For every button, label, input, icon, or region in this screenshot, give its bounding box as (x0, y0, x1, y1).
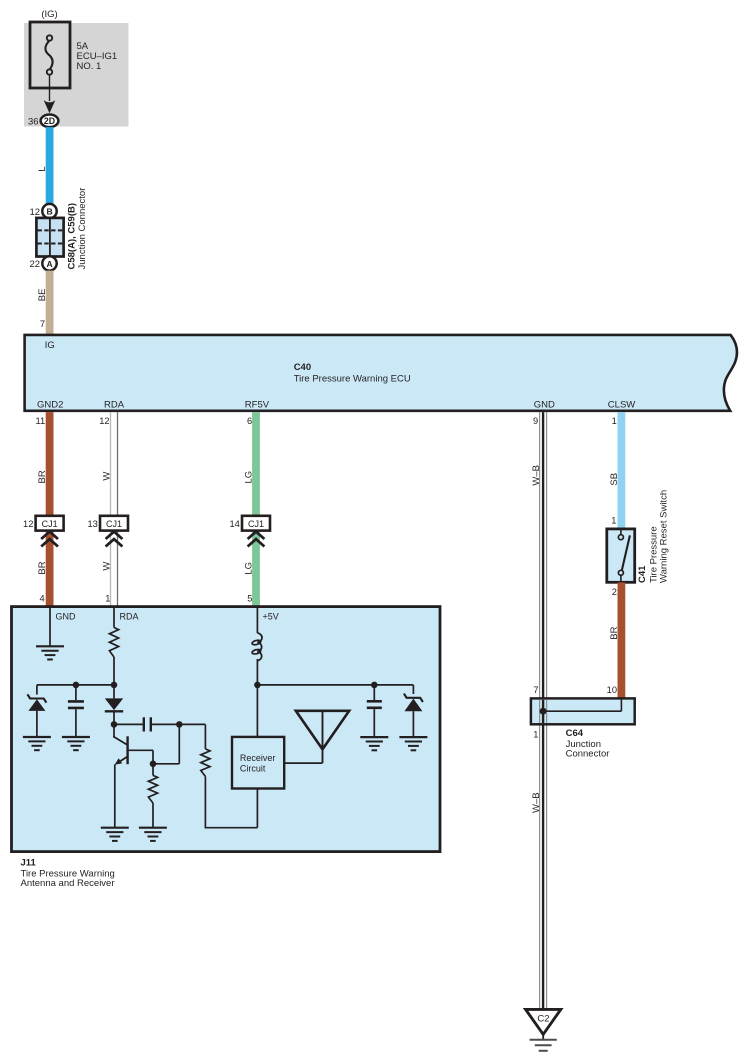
ground (62, 736, 90, 738)
wire emitter down (114, 764, 116, 827)
wire W column 2 (110, 412, 112, 606)
resistor (RDA input) (109, 628, 118, 658)
svg-text:RDA: RDA (120, 611, 139, 621)
svg-text:W: W (101, 562, 112, 571)
wire W-B column 4 (GND to C64 to C2) (539, 412, 541, 1010)
connector terminal B pin 12 (42, 204, 56, 218)
svg-text:11: 11 (36, 416, 46, 426)
svg-text:L: L (37, 166, 48, 171)
transistor Q1 (113, 724, 115, 736)
svg-text:SB: SB (609, 473, 620, 486)
svg-text:GND2: GND2 (37, 399, 63, 410)
node (73, 682, 80, 689)
svg-text:CJ1: CJ1 (248, 519, 264, 529)
wire to receiver (256, 685, 258, 737)
svg-text:7: 7 (533, 685, 538, 695)
fuse F1 5A ECU-IG1 NO.1 (30, 22, 70, 88)
antenna AE1 (296, 711, 349, 750)
junction connector C58/C59 grid (36, 218, 63, 257)
svg-text:1: 1 (105, 593, 110, 603)
junction connector C64 (531, 698, 635, 724)
wire W-B through C64 (539, 700, 541, 723)
svg-text:12: 12 (99, 416, 109, 426)
ground (139, 827, 167, 829)
wire node B down (178, 724, 180, 763)
svg-text:C40: C40 (294, 362, 311, 373)
svg-text:(IG): (IG) (41, 9, 57, 20)
svg-text:Circuit: Circuit (240, 764, 266, 774)
svg-text:CJ1: CJ1 (42, 519, 58, 529)
resistor (bias) (201, 749, 210, 777)
svg-text:NO. 1: NO. 1 (77, 61, 102, 72)
svg-text:CJ1: CJ1 (106, 519, 122, 529)
svg-text:4: 4 (40, 593, 45, 603)
svg-text:W–B: W–B (531, 465, 542, 486)
connector 2D pin 36 (41, 115, 59, 128)
pin label +5V (J11) (256, 608, 258, 633)
svg-text:Receiver: Receiver (240, 753, 276, 763)
svg-text:12: 12 (30, 207, 41, 218)
svg-text:12: 12 (23, 519, 33, 529)
svg-text:BR: BR (609, 626, 620, 639)
svg-text:Antenna and Receiver: Antenna and Receiver (21, 878, 115, 889)
wire LG column 3 (252, 412, 260, 606)
chevron junction marker (41, 532, 58, 539)
node A (111, 721, 118, 728)
svg-text:Tire Pressure Warning ECU: Tire Pressure Warning ECU (294, 373, 411, 384)
svg-text:CLSW: CLSW (608, 399, 635, 410)
svg-text:B: B (46, 207, 52, 217)
node (371, 682, 378, 689)
svg-text:6: 6 (247, 416, 252, 426)
wire BR column 1 (46, 412, 54, 606)
svg-text:Connector: Connector (566, 748, 610, 759)
svg-text:2: 2 (612, 587, 617, 597)
connector CJ1 (pin 13) (100, 516, 128, 531)
svg-text:BR: BR (37, 470, 48, 483)
svg-text:C64: C64 (566, 728, 584, 739)
svg-text:W–B: W–B (531, 792, 542, 813)
svg-text:GND: GND (56, 611, 77, 621)
svg-text:LG: LG (243, 471, 254, 484)
svg-text:9: 9 (533, 416, 538, 426)
connector CJ1 (pin 12) (36, 516, 64, 531)
wire fuse to connector 2D (49, 75, 51, 101)
wire L (blue) (46, 127, 54, 204)
svg-text:5: 5 (247, 593, 252, 603)
svg-text:22: 22 (30, 259, 41, 270)
svg-text:Junction Connector: Junction Connector (77, 188, 88, 270)
node (111, 682, 118, 689)
svg-text:J11: J11 (21, 857, 37, 868)
ground (399, 736, 427, 738)
svg-text:Warning Reset Switch: Warning Reset Switch (658, 490, 669, 583)
svg-text:W: W (101, 472, 112, 481)
svg-text:RDA: RDA (104, 399, 125, 410)
fuse block background (24, 23, 129, 127)
ground point C2 (526, 1009, 561, 1034)
svg-text:BR: BR (37, 561, 48, 574)
resistor (emitter divider) (152, 764, 154, 776)
chevron junction marker (106, 532, 123, 539)
inductor L1 (257, 633, 262, 661)
svg-text:IG: IG (45, 340, 55, 351)
antenna/receiver J11 box (12, 607, 441, 852)
capacitor (left) (75, 685, 77, 700)
ground (23, 736, 51, 738)
svg-text:13: 13 (87, 519, 97, 529)
svg-text:C2: C2 (537, 1013, 549, 1024)
wire BR column 5 (618, 582, 626, 698)
wire (256, 659, 258, 685)
svg-text:36: 36 (28, 116, 39, 127)
wire SB column 5 (618, 412, 626, 529)
svg-text:C41: C41 (637, 565, 648, 583)
zener diode (left) (27, 694, 46, 702)
svg-text:+5V: +5V (263, 611, 279, 621)
ground (360, 736, 388, 738)
node (base/divider) (150, 761, 157, 768)
wire (204, 776, 206, 827)
svg-text:C58(A), C59(B): C58(A), C59(B) (66, 203, 77, 270)
node (C64) (540, 708, 547, 715)
svg-text:GND: GND (534, 399, 555, 410)
wire (113, 657, 115, 685)
svg-text:A: A (46, 259, 52, 269)
receiver circuit U1 (232, 737, 284, 789)
svg-text:LG: LG (243, 562, 254, 575)
svg-text:10: 10 (607, 685, 617, 695)
diode D1 (113, 685, 115, 699)
wire to bias resistor (179, 723, 205, 725)
zener diode (right) (412, 685, 414, 694)
svg-text:1: 1 (533, 730, 538, 740)
node B (176, 721, 183, 728)
node (+5V) (254, 682, 261, 689)
ground (emitter) (101, 827, 129, 829)
pin label GND (J11) (49, 608, 51, 646)
svg-text:1: 1 (611, 515, 616, 525)
capacitor (coupling) (114, 723, 143, 725)
right rail wire (257, 684, 413, 686)
connector CJ1 (pin 14) (242, 516, 270, 531)
svg-text:BE: BE (37, 289, 48, 302)
svg-text:7: 7 (40, 319, 45, 329)
reset switch C41 (607, 529, 635, 582)
left rail wire (37, 684, 114, 686)
svg-text:14: 14 (229, 519, 239, 529)
svg-text:1: 1 (612, 416, 617, 426)
chevron junction marker (248, 532, 265, 539)
arrowhead (44, 100, 56, 113)
svg-text:RF5V: RF5V (245, 399, 270, 410)
pin label RDA (J11) (113, 608, 115, 628)
capacitor (right) (373, 685, 375, 700)
connector terminal A pin 22 (42, 256, 56, 270)
ECU C40 box (25, 335, 737, 411)
ground (GND pin) (36, 645, 64, 647)
svg-text:2D: 2D (44, 116, 55, 126)
wire BE (beige) (46, 271, 54, 335)
